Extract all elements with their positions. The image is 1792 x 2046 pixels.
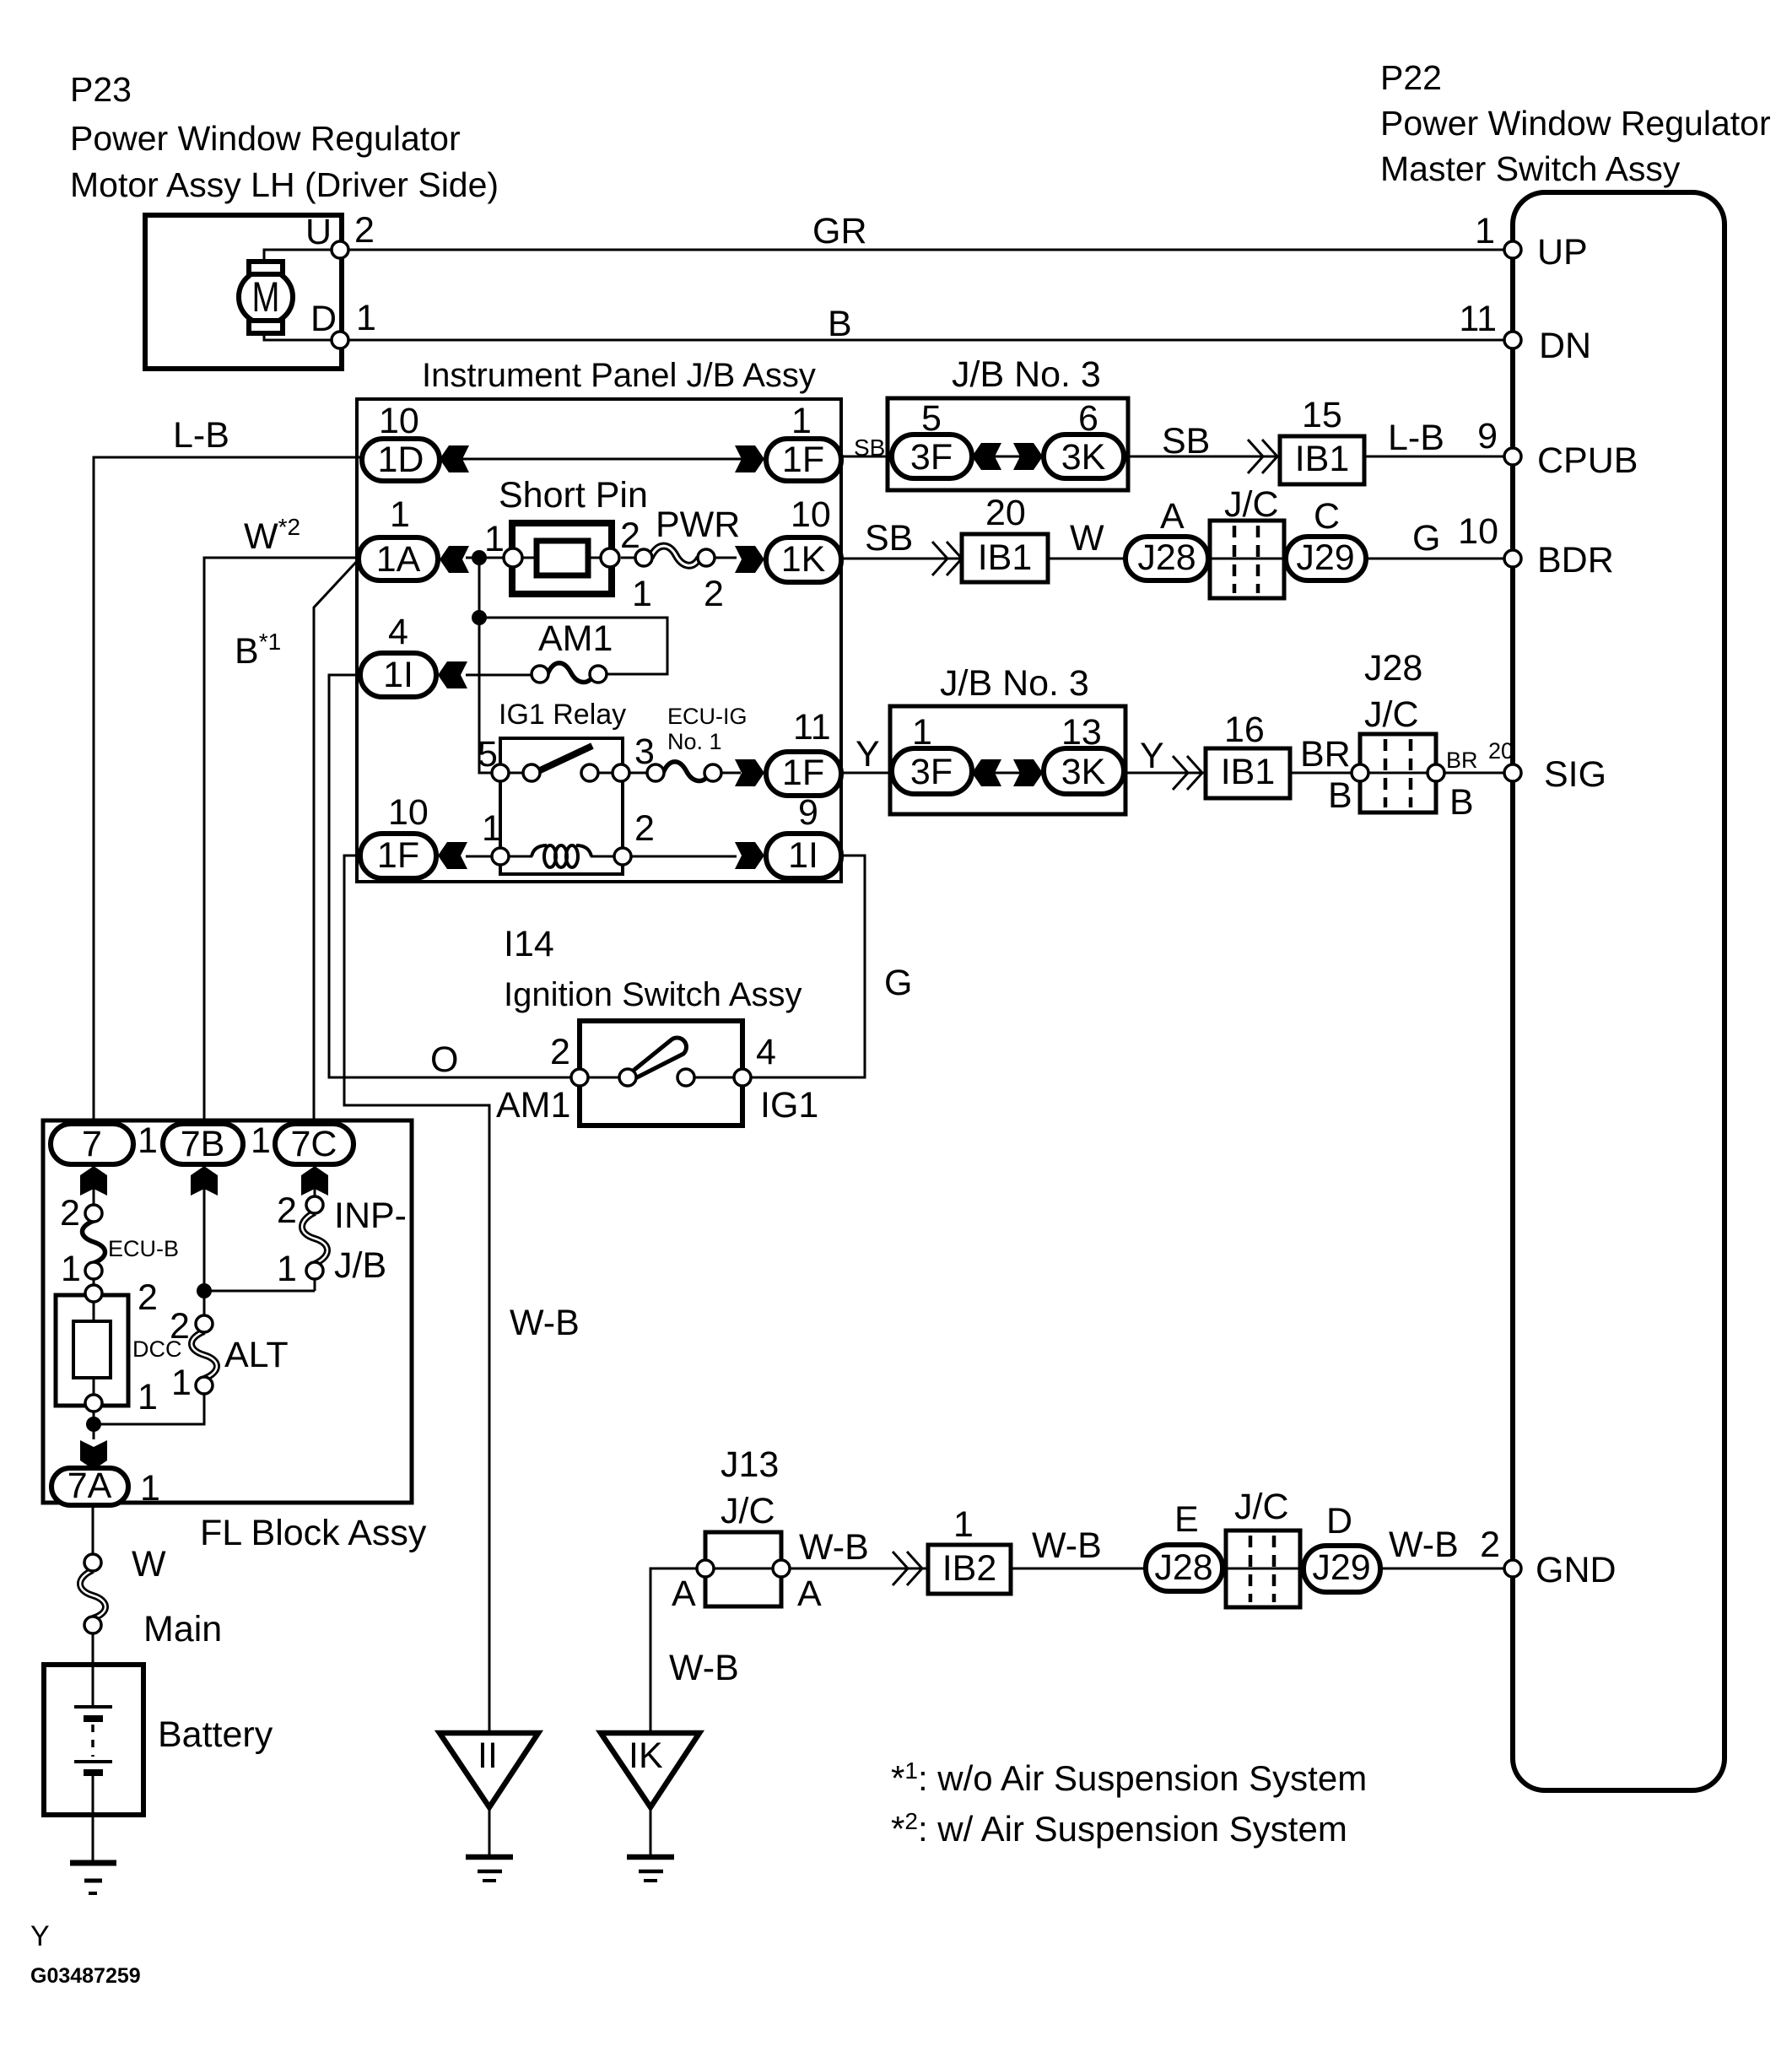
svg-text:2: 2 — [354, 210, 375, 251]
svg-text:10: 10 — [1458, 511, 1498, 552]
wire W*2 from connector 1A to FL connector 7B — [204, 558, 359, 1122]
svg-text:IB2: IB2 — [942, 1548, 997, 1589]
label W*2 — [244, 514, 300, 557]
label O — [430, 1039, 458, 1080]
label P23 Power Window Regulator Motor Assy LH (Driver Side) — [70, 70, 499, 204]
svg-text:W-B: W-B — [1032, 1525, 1102, 1566]
svg-text:G03487259: G03487259 — [30, 1964, 141, 1988]
svg-text:9: 9 — [798, 792, 818, 833]
pin 11 DN of P22 — [1459, 299, 1591, 366]
svg-text:1F: 1F — [377, 835, 419, 876]
svg-text:16: 16 — [1224, 710, 1265, 750]
svg-text:W: W — [132, 1544, 166, 1584]
connector 1I pin 4 — [360, 612, 436, 697]
chevron into 1D — [440, 445, 469, 472]
svg-text:J29: J29 — [1296, 537, 1354, 578]
connector 1K pin 10 — [766, 494, 841, 582]
svg-text:IB1: IB1 — [1295, 439, 1350, 479]
junction connector J28 pin E — [1146, 1499, 1223, 1591]
svg-text:1: 1 — [482, 808, 502, 849]
svg-text:10: 10 — [791, 494, 831, 535]
label SB small — [854, 435, 885, 461]
fuse ECU-IG No.1 — [629, 704, 748, 781]
master switch assy P22 box — [1513, 192, 1725, 1790]
label L-B — [1388, 418, 1444, 458]
svg-text:3F: 3F — [910, 437, 953, 478]
note *1 w/o Air Suspension System — [891, 1757, 1367, 1798]
svg-text:1: 1 — [61, 1249, 81, 1289]
instrument panel J/B assy box — [357, 357, 841, 882]
svg-text:10: 10 — [388, 792, 429, 833]
junction J28 J/C block on SIG wire — [1328, 648, 1478, 823]
svg-text:J/C: J/C — [1234, 1487, 1289, 1527]
svg-text:INP-: INP- — [334, 1196, 407, 1236]
wire short pin to fuse PWR — [621, 557, 644, 559]
wire 3F to 3K lower — [972, 772, 1044, 775]
svg-text:No. 1: No. 1 — [667, 729, 722, 754]
wire junction to 7C branch — [204, 1290, 315, 1293]
label Y — [1140, 736, 1164, 776]
svg-text:20: 20 — [985, 493, 1026, 533]
svg-text:BR: BR — [1446, 748, 1478, 773]
svg-text:A: A — [797, 1574, 822, 1614]
svg-text:W: W — [1070, 518, 1104, 559]
label W — [1070, 518, 1104, 559]
svg-text:2: 2 — [634, 808, 655, 849]
svg-text:7: 7 — [82, 1124, 102, 1164]
svg-text:J/B No. 3: J/B No. 3 — [940, 663, 1089, 704]
connector 3K pin 6 — [1044, 398, 1124, 478]
svg-text:UP: UP — [1537, 232, 1588, 273]
wire ALT to junction below DCC — [100, 1394, 204, 1424]
svg-text:II: II — [478, 1736, 498, 1776]
wire and chevron into connector 7 — [80, 1164, 107, 1213]
svg-text:D: D — [1326, 1501, 1352, 1541]
svg-text:ECU-IG: ECU-IG — [667, 704, 748, 729]
wire IB1 16 to J/C — [1290, 772, 1360, 775]
chevron into 1F 11 — [735, 759, 764, 786]
wire from junction at 1A down to IG1 relay pin 5 — [479, 558, 493, 773]
svg-text:7B: 7B — [181, 1124, 225, 1164]
wire Main to battery — [92, 1633, 94, 1665]
wire connector 1I(4) to ignition switch AM1 pin — [329, 675, 572, 1077]
svg-text:3K: 3K — [1061, 437, 1106, 478]
chevron into 1F 10 — [438, 842, 467, 869]
svg-text:AM1: AM1 — [496, 1085, 570, 1126]
svg-text:I14: I14 — [504, 924, 554, 964]
svg-text:SIG: SIG — [1544, 754, 1606, 795]
wire IB2 to J28 — [1011, 1568, 1146, 1570]
wire 1K to IB1 20 — [841, 558, 962, 560]
battery — [44, 1665, 273, 1815]
svg-text:BDR: BDR — [1537, 540, 1614, 580]
svg-text:3F: 3F — [910, 752, 953, 792]
junction dot at 1A branch — [472, 550, 487, 565]
svg-text:Power Window Regulator: Power Window Regulator — [1380, 104, 1771, 143]
ground IK — [601, 1733, 699, 1881]
label W-B — [1389, 1525, 1459, 1565]
svg-text:1: 1 — [1475, 211, 1495, 251]
svg-text:*2: w/ Air Suspension System: *2: w/ Air Suspension System — [891, 1808, 1347, 1849]
svg-text:2: 2 — [704, 574, 724, 614]
svg-text:7A: 7A — [67, 1466, 112, 1506]
wire 1F to 3F with SB label — [841, 456, 892, 458]
wire 3F to 3K — [972, 456, 1044, 458]
svg-text:Motor Assy LH (Driver Side): Motor Assy LH (Driver Side) — [70, 165, 499, 204]
svg-text:1: 1 — [356, 298, 376, 338]
svg-text:2: 2 — [620, 516, 640, 556]
J/B No. 3 upper box — [888, 354, 1128, 490]
short pin assembly — [484, 475, 648, 594]
connector IB1 pin 15 — [1280, 395, 1364, 484]
svg-text:IG1 Relay: IG1 Relay — [499, 699, 626, 731]
wire and chevron into connector 7B — [191, 1164, 218, 1324]
svg-text:U: U — [305, 212, 332, 252]
pin U 2 of motor — [305, 210, 375, 258]
connector 3F pin 5 — [892, 398, 972, 478]
svg-text:1: 1 — [171, 1363, 192, 1403]
motor assembly box P23 — [145, 215, 342, 369]
svg-text:GND: GND — [1536, 1550, 1617, 1590]
label B*1 — [235, 629, 281, 672]
label Y — [856, 734, 880, 775]
svg-text:B*1: B*1 — [235, 629, 281, 672]
ground below battery — [70, 1815, 116, 1893]
chevron into 1I 9 — [735, 842, 764, 869]
svg-text:SB: SB — [1162, 421, 1210, 462]
chevron down into 7A — [80, 1440, 107, 1470]
svg-text:4: 4 — [756, 1032, 776, 1072]
chevron pair between 3F and 3K — [972, 443, 1043, 470]
connector 7C — [275, 1124, 354, 1164]
svg-text:E: E — [1174, 1499, 1199, 1540]
svg-text:O: O — [430, 1039, 458, 1080]
wire 7A to Main fusible link — [92, 1505, 94, 1554]
svg-text:2: 2 — [60, 1193, 80, 1234]
fuse AM1 — [532, 618, 613, 683]
svg-text:W-B: W-B — [1389, 1525, 1459, 1565]
svg-text:7C: 7C — [291, 1124, 337, 1164]
svg-text:20: 20 — [1488, 738, 1514, 764]
wire connector 1I(9) to ignition switch IG1 pin — [750, 856, 865, 1077]
pin 20 SIG of P22 — [1488, 738, 1606, 795]
pin 1 UP of P22 — [1475, 211, 1588, 273]
svg-text:Y: Y — [1140, 736, 1164, 776]
svg-text:2: 2 — [170, 1306, 190, 1347]
wire 3K to IB1 15 — [1124, 456, 1280, 458]
connector 1F pin 10 — [360, 792, 436, 878]
svg-text:B: B — [1449, 782, 1474, 823]
svg-text:IG1: IG1 — [760, 1085, 818, 1126]
svg-text:J28: J28 — [1364, 648, 1422, 688]
svg-text:P23: P23 — [70, 70, 132, 109]
svg-text:1: 1 — [138, 1377, 158, 1417]
svg-text:1I: 1I — [788, 835, 818, 876]
chevron into 1A — [440, 546, 469, 573]
fuse block DCC — [56, 1277, 182, 1439]
connector IB2 pin 1 — [928, 1504, 1011, 1594]
pin 10 BDR of P22 — [1458, 511, 1614, 580]
connector 7A pin 1 — [51, 1466, 160, 1509]
svg-text:1F: 1F — [782, 440, 824, 480]
svg-text:CPUB: CPUB — [1537, 440, 1638, 481]
connector 1I pin 9 — [766, 792, 841, 878]
svg-text:SB: SB — [865, 518, 913, 559]
connector 1A pin 1 — [359, 494, 438, 580]
svg-text:A: A — [672, 1574, 696, 1614]
svg-text:D: D — [310, 299, 337, 339]
label W-B — [799, 1527, 869, 1568]
connector 3K pin 13 — [1044, 712, 1124, 794]
junction dot below DCC — [86, 1417, 101, 1432]
svg-text:11: 11 — [793, 707, 831, 748]
fuse ECU-B — [60, 1193, 179, 1289]
fuse PWR — [632, 505, 740, 614]
svg-text:1: 1 — [138, 1120, 158, 1161]
junction block J/C on GND wire — [1226, 1487, 1300, 1607]
svg-text:1D: 1D — [378, 440, 424, 480]
svg-text:11: 11 — [1459, 299, 1497, 339]
connector 1D pin 10 — [362, 401, 440, 481]
J/B No. 3 lower box — [890, 663, 1125, 814]
wire fuse AM1 to connector 1I — [466, 674, 532, 677]
double chevron before IB1 20 — [932, 542, 962, 575]
svg-text:Main: Main — [143, 1609, 222, 1649]
wire 1D to 1F inside J/B — [440, 458, 766, 461]
label W-B — [510, 1303, 580, 1343]
wire J29 to GND pin — [1380, 1568, 1504, 1570]
svg-text:2: 2 — [550, 1032, 570, 1072]
motor M P23 — [239, 250, 340, 340]
svg-text:IB1: IB1 — [978, 537, 1033, 578]
svg-text:1F: 1F — [782, 753, 824, 793]
wire J29 to BDR pin — [1366, 558, 1504, 560]
note *2 w/ Air Suspension System — [891, 1808, 1347, 1849]
svg-text:IB1: IB1 — [1221, 752, 1276, 792]
svg-text:B: B — [828, 304, 852, 344]
svg-text:1: 1 — [632, 574, 652, 614]
pin D 1 of motor — [310, 298, 376, 348]
label L-B — [173, 415, 229, 456]
svg-text:Y: Y — [856, 734, 880, 775]
svg-text:9: 9 — [1477, 416, 1498, 456]
connector 1F pin 1 — [766, 401, 841, 481]
svg-text:1: 1 — [484, 519, 505, 559]
junction connector J28 pin A — [1125, 496, 1208, 580]
wire GR (motor U to master switch UP) — [340, 249, 1504, 251]
connector IB1 pin 20 — [962, 493, 1048, 582]
fuse ALT — [170, 1306, 289, 1403]
pin 9 CPUB of P22 — [1477, 416, 1638, 481]
svg-text:IK: IK — [629, 1736, 663, 1776]
label B — [828, 304, 852, 344]
label G — [884, 963, 912, 1003]
connector 1F pin 11 — [766, 707, 841, 796]
svg-text:C: C — [1314, 496, 1340, 537]
connector IB1 pin 16 — [1206, 710, 1290, 798]
connector 3F pin 1 — [892, 712, 972, 794]
svg-text:J28: J28 — [1154, 1547, 1212, 1588]
svg-text:W*2: W*2 — [244, 514, 300, 557]
ground II — [440, 1733, 538, 1881]
svg-text:J/B: J/B — [334, 1245, 386, 1286]
wire L-B from connector 1D to FL block connector 7 — [94, 457, 362, 1122]
svg-text:4: 4 — [388, 612, 408, 652]
svg-text:J13: J13 — [721, 1444, 779, 1485]
svg-text:1: 1 — [140, 1468, 160, 1509]
wire fuse PWR to 1K — [715, 557, 737, 559]
double chevron before IB2 — [893, 1552, 922, 1585]
chevron into 1F — [735, 445, 764, 472]
svg-text:Power Window Regulator: Power Window Regulator — [70, 119, 461, 158]
svg-text:1: 1 — [277, 1249, 297, 1289]
connector 7 pin 1 — [51, 1120, 158, 1164]
svg-text:L-B: L-B — [1388, 418, 1444, 458]
pin 2 GND of P22 — [1480, 1525, 1616, 1590]
label Y bottom left — [30, 1920, 50, 1952]
fusible link Main (W) — [80, 1544, 222, 1649]
wire relay coil pin1 to connector 1F(10) — [466, 856, 493, 858]
wire 3K to IB1 16 — [1124, 772, 1206, 775]
relay IG1 — [478, 699, 655, 874]
svg-text:J/B No. 3: J/B No. 3 — [952, 354, 1101, 395]
svg-text:3K: 3K — [1061, 752, 1106, 792]
junction dot on 7B branch — [197, 1283, 212, 1298]
svg-text:Ignition Switch Assy: Ignition Switch Assy — [504, 976, 802, 1013]
chevron into 1K — [735, 546, 764, 573]
label W-B on IK wire — [669, 1648, 739, 1688]
label W-B — [1032, 1525, 1102, 1566]
chevron into 1I — [438, 661, 467, 688]
wire J/C to SIG pin — [1444, 772, 1504, 775]
double chevron before IB1 15 — [1248, 440, 1277, 473]
wire 1A chevron to short pin — [466, 557, 516, 559]
wire relay coil pin2 to connector 1I(9) — [631, 856, 737, 858]
fuse INP-J/B — [277, 1190, 407, 1289]
junction block J/C between J28 and J29 — [1210, 484, 1284, 598]
wire B*1 from connector 1A to FL connector 7C — [314, 559, 359, 1122]
svg-text:Battery: Battery — [158, 1714, 273, 1755]
svg-text:1: 1 — [791, 401, 812, 441]
wire AM1 branch loop — [479, 618, 667, 674]
svg-text:Instrument Panel J/B Assy: Instrument Panel J/B Assy — [422, 357, 816, 394]
label GR — [812, 211, 867, 251]
wire IB1 to CPUB pin — [1364, 456, 1504, 458]
svg-text:M: M — [252, 273, 280, 321]
wire connector 1F(10) to ground II — [344, 856, 489, 1735]
junction connector J29 pin D — [1304, 1501, 1380, 1592]
svg-text:1A: 1A — [376, 539, 421, 580]
label SB — [865, 518, 913, 559]
label G03487259 — [30, 1964, 141, 1988]
svg-text:A: A — [1160, 496, 1185, 537]
svg-text:G: G — [1412, 518, 1440, 559]
svg-text:1K: 1K — [781, 539, 826, 580]
svg-text:Short Pin: Short Pin — [499, 475, 648, 516]
svg-text:P22: P22 — [1380, 58, 1442, 97]
chevron pair between 3F and 3K lower — [972, 759, 1043, 786]
wire J13 to IB2 — [790, 1568, 928, 1570]
svg-text:*1: w/o Air Suspension System: *1: w/o Air Suspension System — [891, 1757, 1367, 1798]
wire B (motor D to master switch DN) — [340, 339, 1504, 342]
svg-text:FL Block Assy: FL Block Assy — [200, 1513, 427, 1553]
svg-text:SB: SB — [854, 435, 885, 461]
svg-text:1I: 1I — [383, 655, 413, 695]
junction connector J29 pin C — [1286, 496, 1366, 580]
svg-text:1: 1 — [251, 1120, 271, 1161]
svg-text:ALT: ALT — [224, 1335, 289, 1375]
junction connector J13 J/C — [672, 1444, 822, 1614]
svg-text:2: 2 — [277, 1190, 297, 1231]
ignition switch assy I14 — [496, 924, 818, 1126]
svg-text:1: 1 — [953, 1504, 974, 1545]
svg-text:BR: BR — [1300, 734, 1351, 775]
label P22 Power Window Regulator Master Switch Assy — [1380, 58, 1771, 188]
svg-text:ECU-B: ECU-B — [108, 1236, 179, 1261]
connector 7B pin 1 — [163, 1120, 271, 1164]
svg-text:PWR: PWR — [656, 505, 740, 545]
label BR — [1300, 734, 1351, 775]
svg-text:W-B: W-B — [510, 1303, 580, 1343]
svg-text:B: B — [1328, 775, 1352, 816]
double chevron before IB1 16 — [1173, 756, 1202, 790]
svg-text:1: 1 — [390, 494, 410, 535]
wire and chevron into connector 7C — [301, 1164, 328, 1205]
svg-text:J29: J29 — [1312, 1547, 1370, 1588]
svg-text:AM1: AM1 — [538, 618, 613, 659]
label G — [1412, 518, 1440, 559]
junction dot AM1 branch — [472, 610, 487, 625]
svg-text:W-B: W-B — [669, 1648, 739, 1688]
wire 1F(11) to 3F lower — [841, 772, 892, 775]
wire IB1 to J28 — [1048, 558, 1125, 560]
svg-text:L-B: L-B — [173, 415, 229, 456]
label SB — [1162, 421, 1210, 462]
svg-text:15: 15 — [1302, 395, 1342, 435]
svg-text:G: G — [884, 963, 912, 1003]
svg-text:W-B: W-B — [799, 1527, 869, 1568]
svg-text:J28: J28 — [1137, 537, 1196, 578]
svg-text:Master Switch Assy: Master Switch Assy — [1380, 149, 1681, 188]
svg-text:GR: GR — [812, 211, 867, 251]
svg-text:Y: Y — [30, 1920, 50, 1952]
svg-text:DN: DN — [1539, 326, 1591, 366]
wire ground IK to J13 — [650, 1568, 705, 1735]
FL block assy box — [43, 1120, 427, 1553]
svg-text:2: 2 — [138, 1277, 158, 1318]
svg-text:J/C: J/C — [721, 1491, 775, 1531]
svg-text:J/C: J/C — [1364, 694, 1419, 735]
svg-text:2: 2 — [1480, 1525, 1500, 1565]
svg-text:10: 10 — [379, 401, 419, 441]
wire INP-J/B to junction — [314, 1279, 316, 1291]
